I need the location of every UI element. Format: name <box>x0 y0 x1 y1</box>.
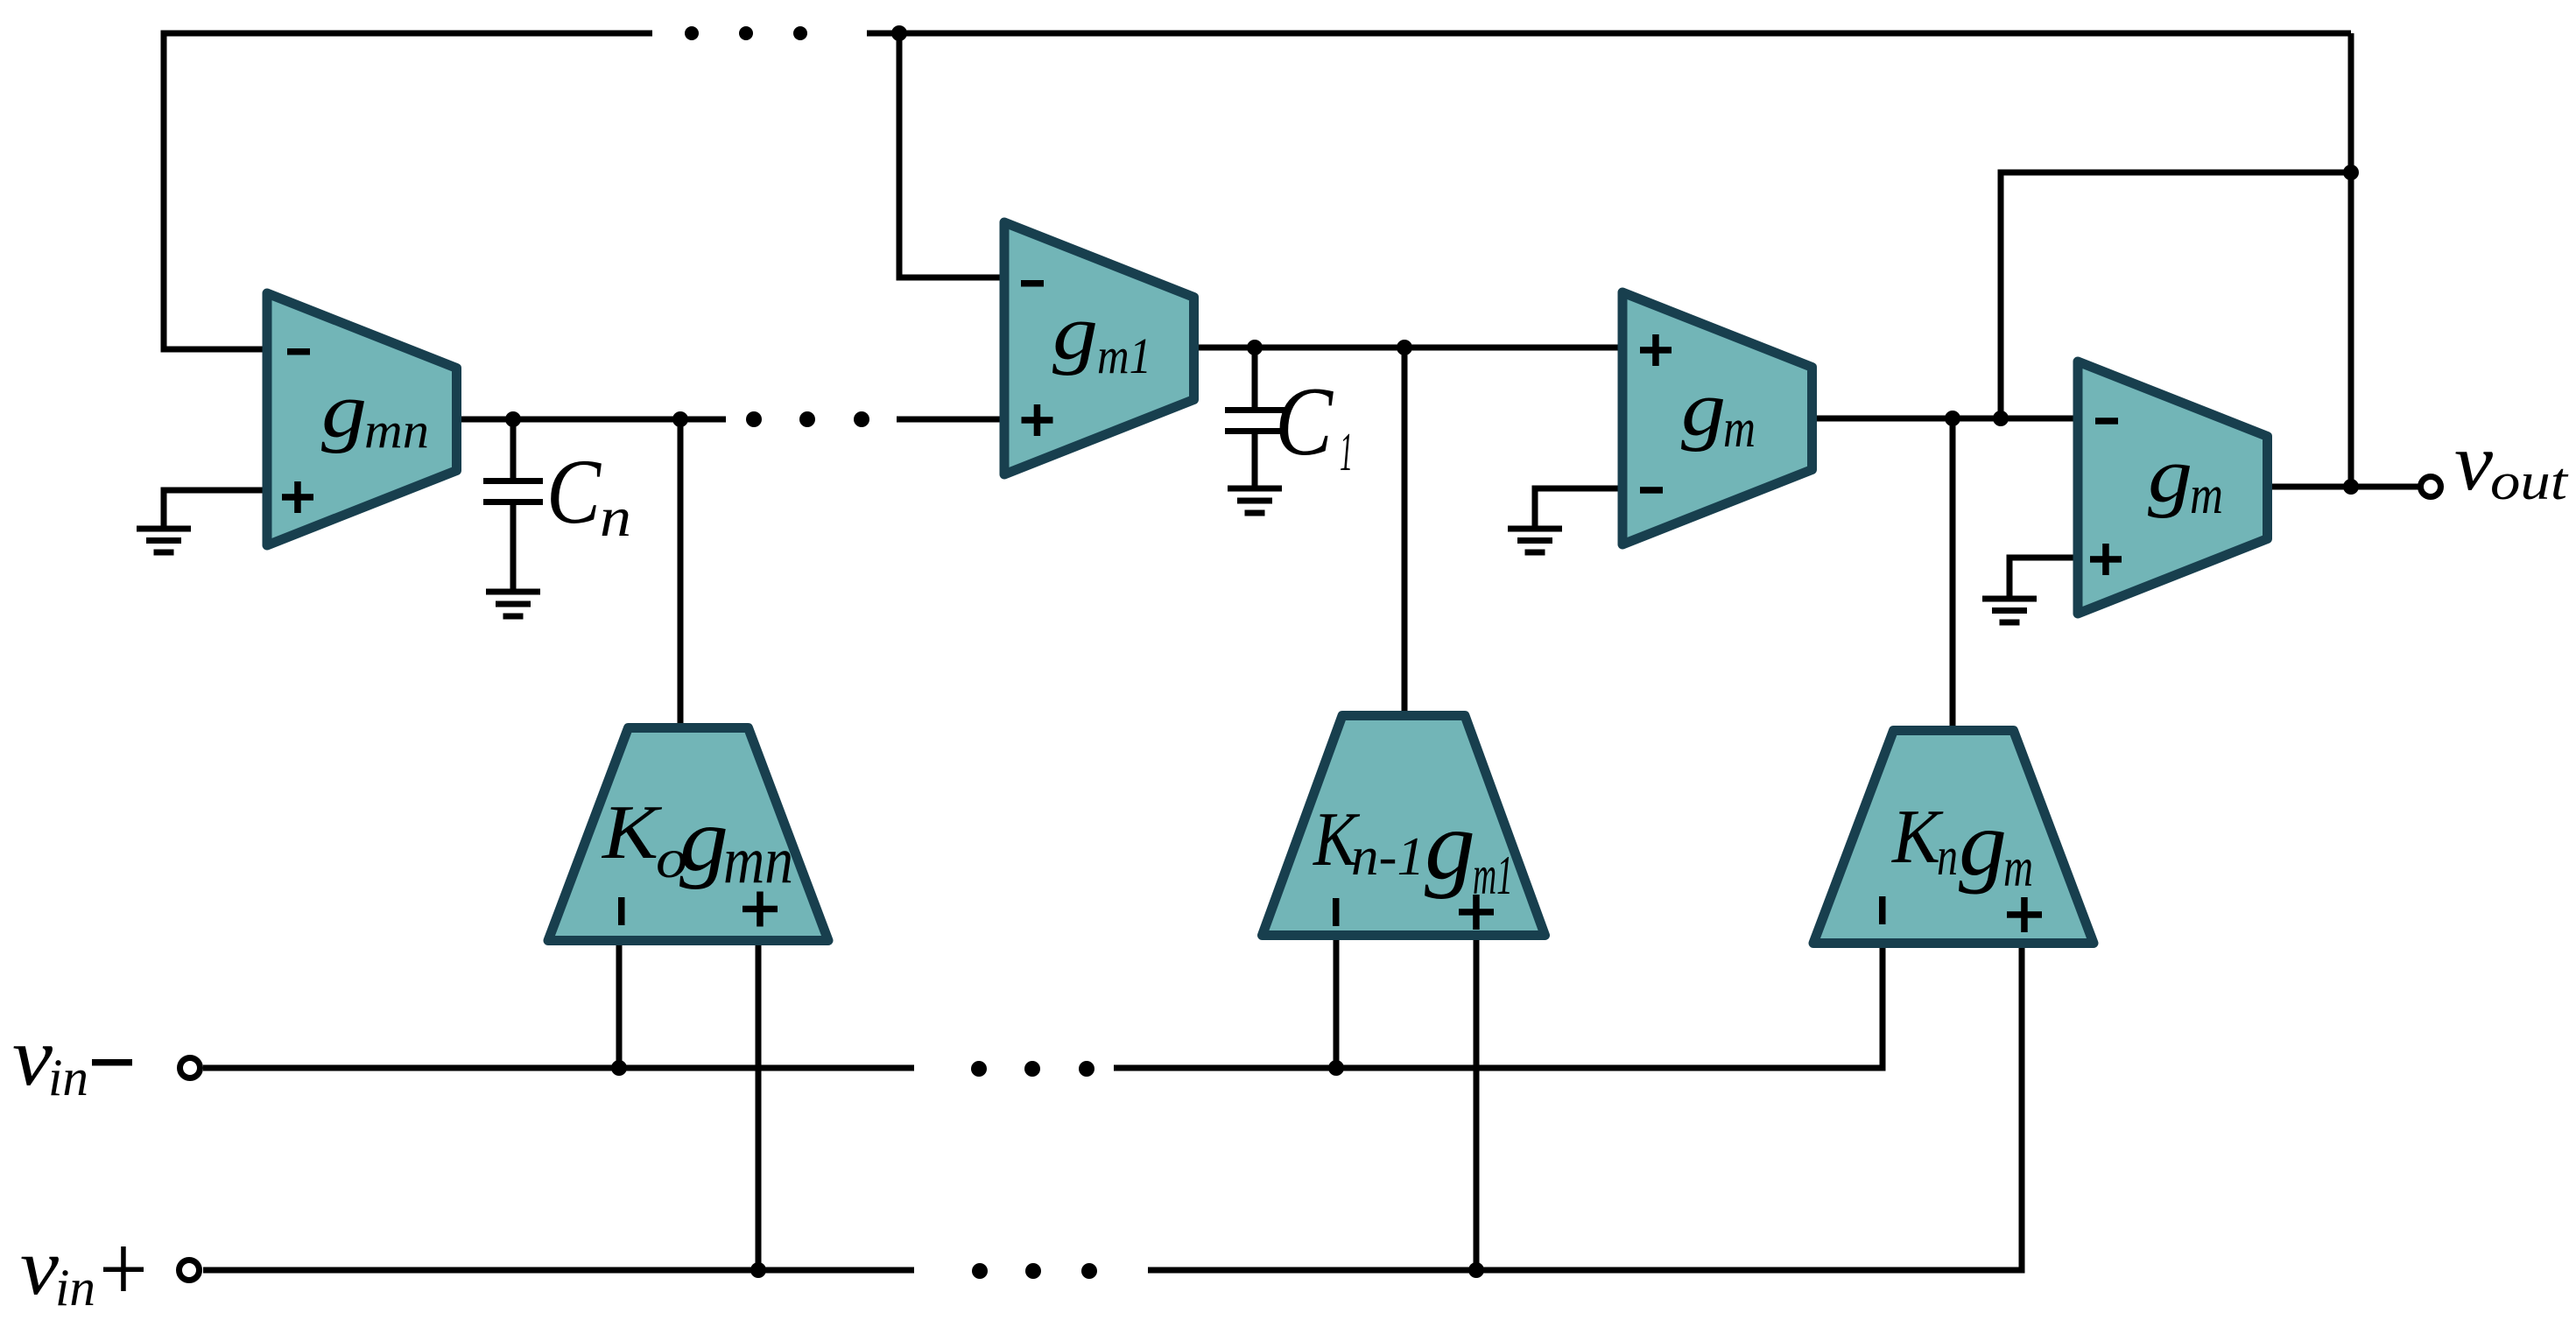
svg-text:mn: mn <box>364 402 429 459</box>
op-amp Ko gmn (feedforward) <box>548 728 828 941</box>
wire gm4 output to vout terminal <box>2271 484 2418 490</box>
wire capacitor Cn bottom lead <box>510 505 517 589</box>
wire gmn + input to ground <box>164 490 263 526</box>
wire Kn-1 gm1 + input stub <box>1474 932 1480 1270</box>
wire gm3 - input to ground <box>1535 488 1618 526</box>
label gm4 <box>2148 432 2223 525</box>
ground below capacitor Cn <box>486 592 540 616</box>
minus sign gm4 <box>2095 418 2118 425</box>
node feedback joins right vertical <box>2343 165 2359 180</box>
svg-text:g: g <box>679 790 728 890</box>
op-amp Kn-1 gm1 (feedforward) <box>1263 716 1545 936</box>
node vin- / Kn-1 minus <box>1328 1060 1344 1076</box>
ellipsis dots top wire <box>685 26 807 40</box>
capacitor C1 plates <box>1225 411 1284 432</box>
plus sign Kn gm <box>2007 897 2042 932</box>
node chain2 / Kn-1 drop <box>1397 340 1412 355</box>
op-amp gm1 <box>1004 222 1194 474</box>
wire chain3 gm3 output to gm4 - <box>1816 416 2073 422</box>
wire gm1 - feedback vertical <box>899 33 1003 277</box>
ground at gmn + input <box>137 529 191 552</box>
ground at gm4 + input <box>1982 599 2037 622</box>
node chain3 / feedback up <box>1993 411 2009 426</box>
minus sign gmn <box>287 348 310 355</box>
label gmn <box>321 368 429 459</box>
op-amp gmn <box>267 293 457 545</box>
wire chain1 right segment into gm1 + <box>897 417 1003 423</box>
node top wire / gm1 feedback <box>891 25 907 41</box>
wire Ko gmn + input stub <box>756 941 762 1270</box>
op-amp gm4 <box>2078 362 2268 614</box>
wire capacitor C1 top lead <box>1252 348 1258 407</box>
minus sign Kn-1 gm1 <box>1333 898 1340 926</box>
terminal vout <box>2421 477 2441 497</box>
ellipsis dots vin+ rail <box>972 1263 1097 1279</box>
svg-text:out: out <box>2490 453 2569 510</box>
svg-text:m: m <box>2003 836 2033 898</box>
wire right vertical from top wire to output <box>2348 33 2354 487</box>
label vin+ <box>20 1222 144 1316</box>
capacitor Cn plates <box>483 481 543 502</box>
label C1 <box>1275 368 1353 482</box>
label Kn gm <box>1890 792 2033 898</box>
node vin+ / Ko plus <box>750 1262 766 1278</box>
wire gm4 + input to ground <box>2009 558 2073 596</box>
svg-text:v: v <box>20 1222 59 1311</box>
wire chain2 gm1 output to gm3 + <box>1198 345 1618 351</box>
svg-text:in: in <box>55 1259 95 1316</box>
node chain1 / Cn <box>505 411 521 427</box>
label gm3 <box>1681 366 1756 459</box>
wire top feedback segment B <box>867 31 2351 37</box>
wire top feedback segment A <box>164 33 652 37</box>
wire vin- rail left segment <box>203 1065 914 1071</box>
ground below capacitor C1 <box>1228 488 1282 513</box>
svg-text:g: g <box>2148 432 2192 519</box>
label Ko gmn <box>601 790 793 897</box>
op-amp Kn gm (feedforward) <box>1813 731 2094 944</box>
wire drop to Kn-1 gm1 <box>1402 348 1408 718</box>
svg-text:C: C <box>546 440 602 543</box>
wire drop to Kn gm <box>1950 418 1956 732</box>
wire drop to Ko gmn <box>678 419 684 730</box>
svg-text:g: g <box>1052 290 1098 376</box>
label Cn <box>546 440 631 548</box>
svg-text:K: K <box>1890 795 1944 880</box>
svg-text:n: n <box>600 486 631 548</box>
svg-text:g: g <box>321 368 367 454</box>
wire Kn-1 gm1 - input stub <box>1334 932 1340 1068</box>
minus sign Ko gmn <box>618 897 625 925</box>
label vout <box>2454 418 2569 510</box>
minus sign gm1 <box>1021 280 1044 287</box>
plus sign gm1 <box>1022 404 1053 436</box>
label gm1 <box>1052 290 1151 384</box>
wire vin+ rail right segment into Kn gm + <box>1148 944 2022 1270</box>
node vin- / Ko minus <box>611 1060 627 1076</box>
plus sign Kn-1 gm1 <box>1459 895 1494 930</box>
terminal vin+ <box>179 1260 200 1281</box>
ellipsis dots vin- rail <box>971 1061 1094 1077</box>
wire vin+ rail left segment <box>203 1267 914 1274</box>
plus sign gmn <box>282 481 313 513</box>
wire left feedback vertical to gmn - input <box>164 33 263 349</box>
svg-text:n-1: n-1 <box>1351 827 1425 887</box>
node output junction <box>2343 479 2359 495</box>
wire feedback up from chain3 <box>2001 172 2351 418</box>
svg-text:m1: m1 <box>1473 844 1513 906</box>
svg-text:mn: mn <box>723 824 793 897</box>
node chain1 / Ko drop <box>672 411 688 427</box>
svg-text:K: K <box>601 790 663 875</box>
ellipsis dots chain1 <box>746 411 869 427</box>
plus sign gm4 <box>2090 544 2122 575</box>
minus sign gm3 <box>1640 487 1663 494</box>
svg-text:v: v <box>2454 418 2494 508</box>
svg-text:1: 1 <box>1340 423 1353 482</box>
svg-text:in: in <box>48 1049 88 1106</box>
op-amp gm3 <box>1622 292 1812 544</box>
wire vin- rail right segment into Kn gm - <box>1114 944 1883 1068</box>
node chain3 / Kn drop <box>1945 411 1960 426</box>
plus sign Ko gmn <box>743 892 778 927</box>
label vin- <box>12 1010 132 1106</box>
wire capacitor Cn top lead <box>510 419 517 478</box>
node chain2 / C1 <box>1247 340 1263 355</box>
svg-text:m1: m1 <box>1097 327 1151 384</box>
svg-text:g: g <box>1681 366 1726 453</box>
wire capacitor C1 bottom lead <box>1252 434 1258 488</box>
svg-text:g: g <box>1959 792 2007 895</box>
svg-text:m: m <box>1723 399 1756 459</box>
svg-text:g: g <box>1425 791 1475 900</box>
svg-text:C: C <box>1275 368 1334 476</box>
terminal vin- <box>180 1058 201 1078</box>
svg-text:m: m <box>2190 466 2223 525</box>
wire Ko gmn - input stub <box>616 941 623 1068</box>
label Kn-1 gm1 <box>1312 791 1513 906</box>
wire chain1 gmn output segment <box>461 417 726 423</box>
plus sign gm3 <box>1640 334 1672 366</box>
node vin+ / Kn-1 plus <box>1468 1262 1484 1278</box>
svg-text:n: n <box>1937 827 1958 887</box>
svg-text:v: v <box>12 1010 53 1103</box>
ground at gm3 - input <box>1508 529 1562 552</box>
minus sign Kn gm <box>1879 896 1886 924</box>
